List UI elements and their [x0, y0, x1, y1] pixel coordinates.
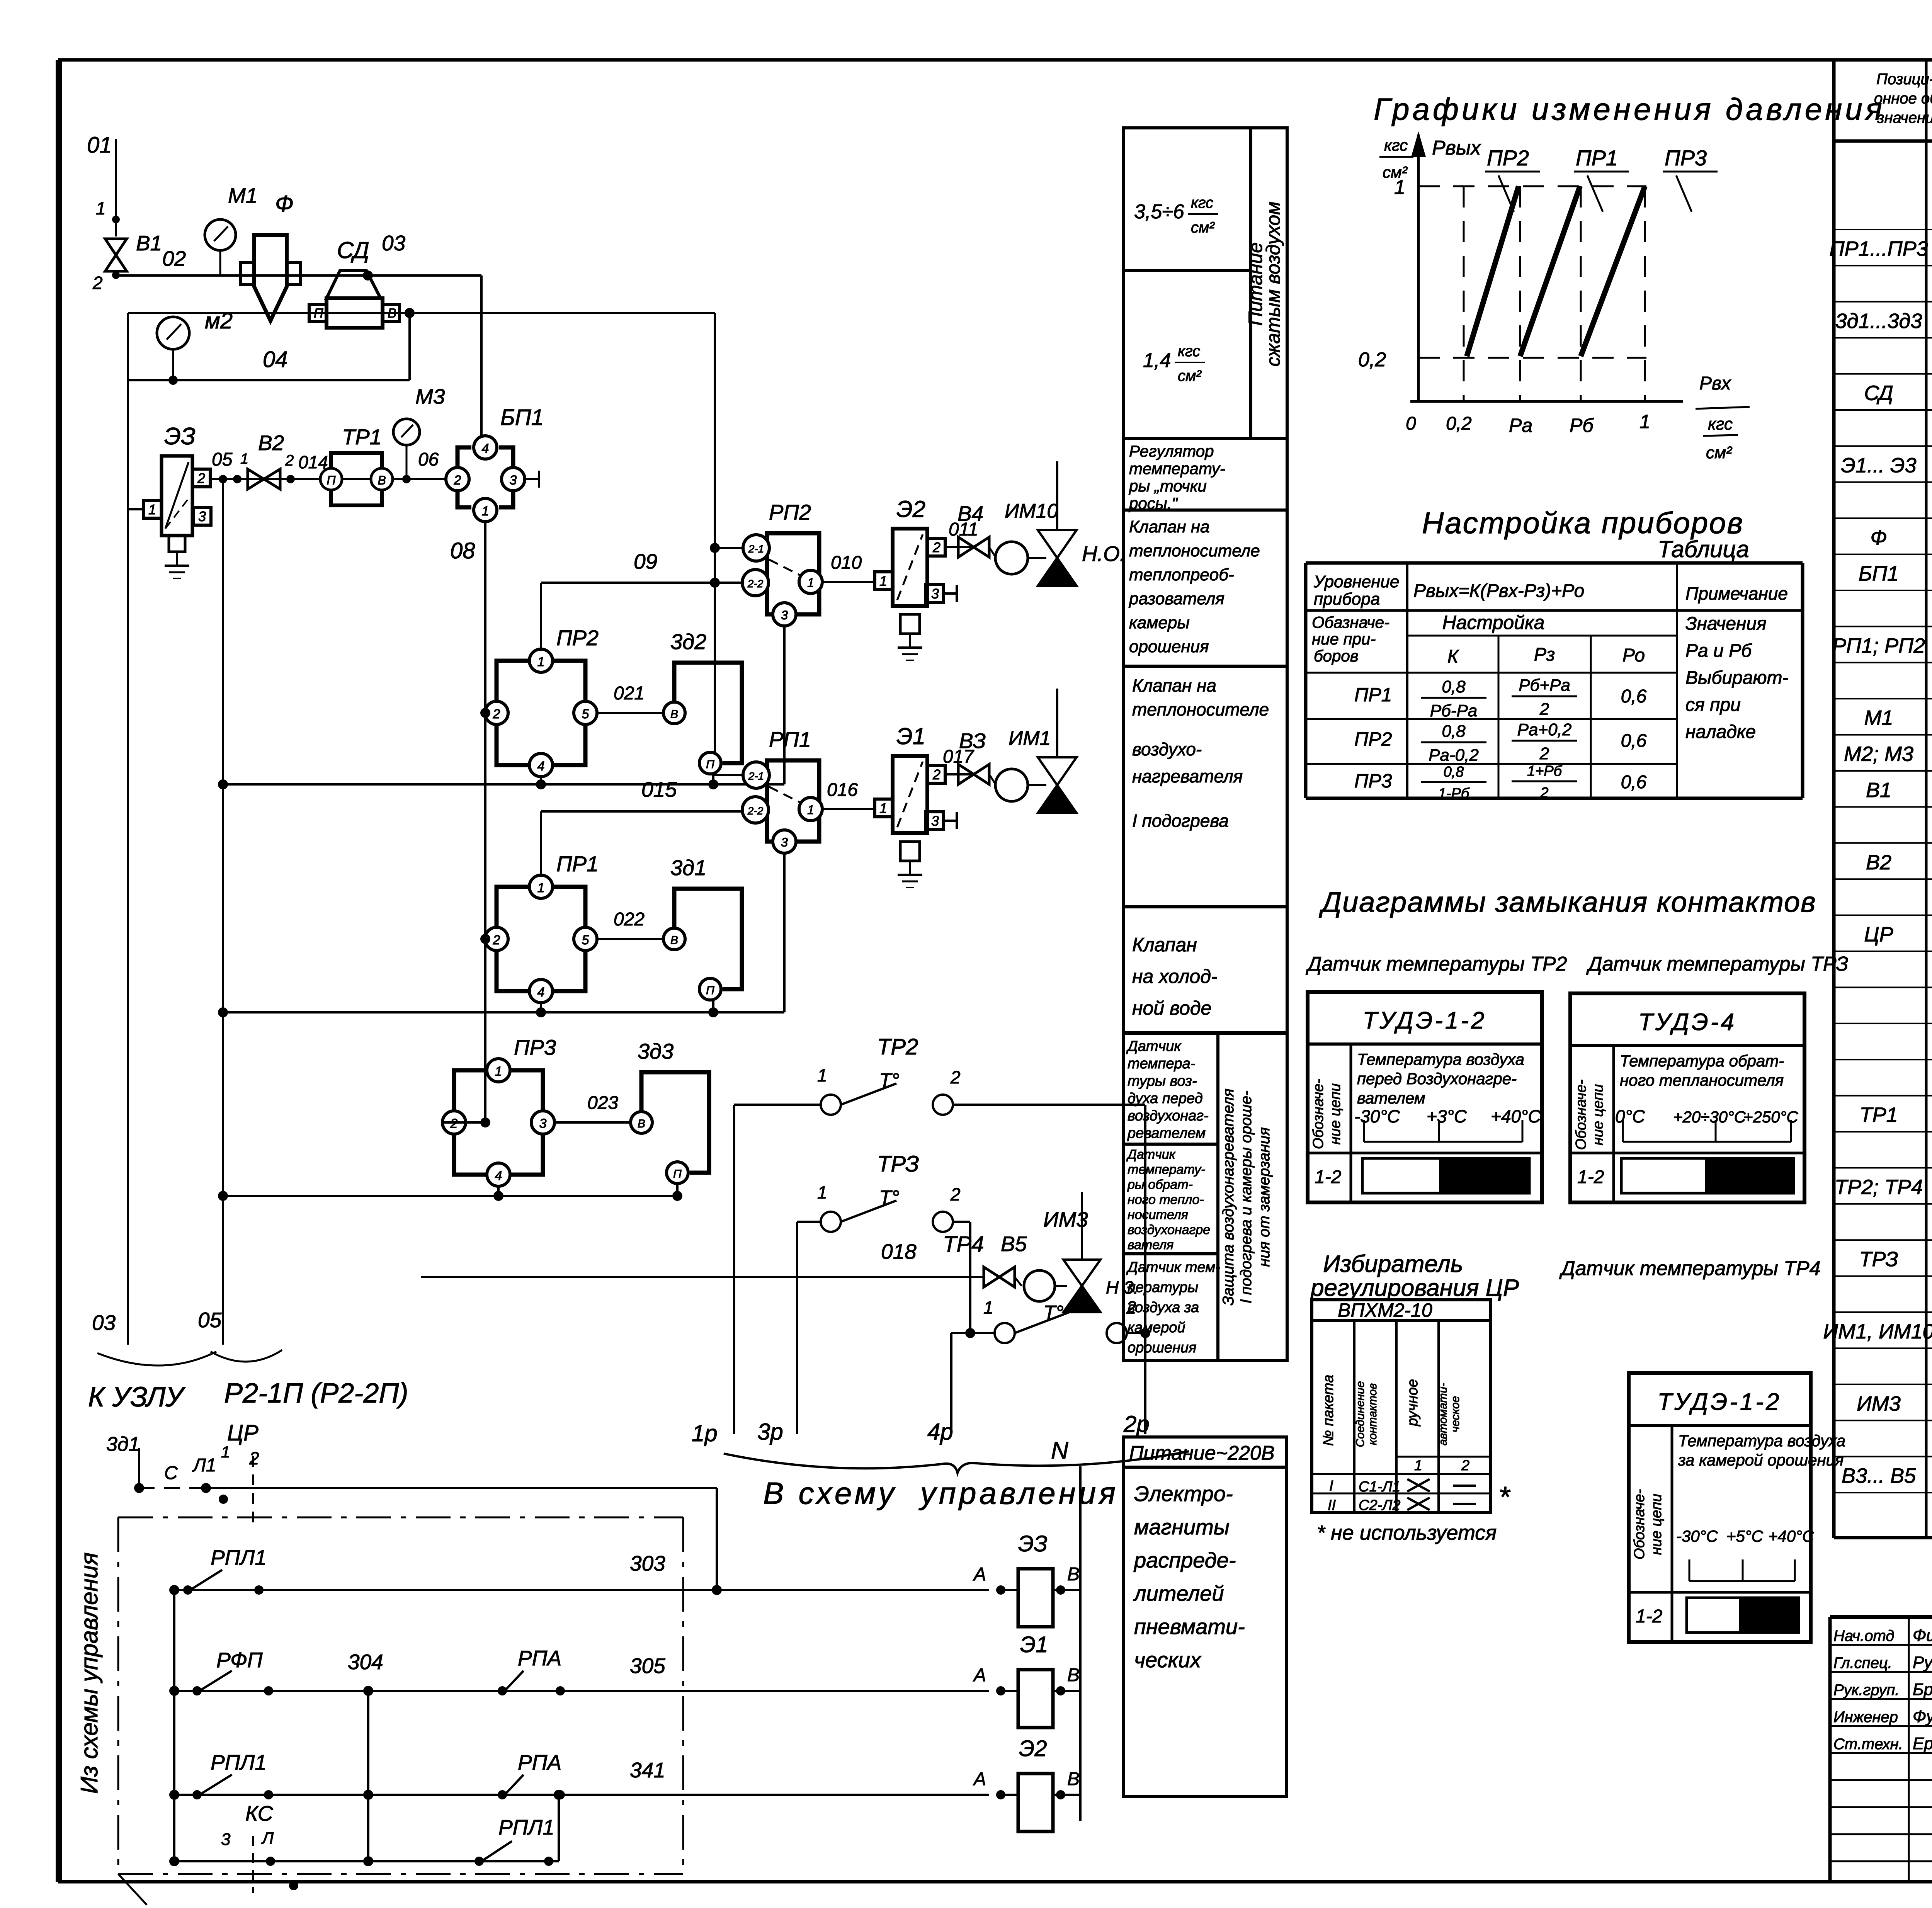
svg-text:0°С: 0°С — [1615, 1106, 1645, 1126]
svg-text:Нач.отд: Нач.отд — [1833, 1627, 1895, 1644]
svg-text:М1: М1 — [228, 184, 257, 207]
svg-text:010: 010 — [831, 553, 862, 573]
svg-text:М2; М3: М2; М3 — [1844, 743, 1913, 766]
svg-text:022: 022 — [614, 909, 645, 930]
svg-text:Обозначе-: Обозначе- — [1573, 1080, 1589, 1150]
svg-text:2р: 2р — [1123, 1411, 1150, 1437]
svg-text:В4: В4 — [957, 502, 983, 525]
svg-text:014: 014 — [298, 452, 328, 472]
svg-text:1: 1 — [1394, 176, 1405, 199]
svg-text:+40°С: +40°С — [1768, 1527, 1814, 1545]
svg-text:1-2: 1-2 — [1636, 1606, 1662, 1627]
svg-text:ПР1: ПР1 — [1354, 684, 1392, 706]
svg-text:Т°: Т° — [879, 1187, 900, 1209]
svg-text:Обазначе-: Обазначе- — [1312, 613, 1389, 631]
svg-text:2: 2 — [932, 767, 940, 782]
svg-text:2: 2 — [454, 473, 461, 488]
svg-text:Рвх: Рвх — [1699, 373, 1731, 394]
svg-text:06: 06 — [418, 449, 439, 470]
svg-text:Э1: Э1 — [896, 723, 925, 749]
svg-text:Рб: Рб — [1570, 415, 1594, 436]
svg-text:В2: В2 — [258, 431, 284, 455]
svg-text:регулирования ЦР: регулирования ЦР — [1310, 1275, 1519, 1301]
svg-text:1: 1 — [807, 576, 814, 590]
svg-text:ЦР: ЦР — [227, 1420, 259, 1445]
svg-text:Ерина: Ерина — [1913, 1734, 1932, 1753]
svg-text:2: 2 — [493, 933, 500, 947]
svg-text:Фингер: Фингер — [1913, 1626, 1932, 1645]
svg-text:В3... В5: В3... В5 — [1842, 1464, 1916, 1488]
svg-text:В2: В2 — [1866, 851, 1891, 874]
svg-text:РФП: РФП — [216, 1648, 263, 1672]
svg-text:нагревателя: нагревателя — [1132, 766, 1243, 786]
svg-text:1-2: 1-2 — [1577, 1167, 1604, 1187]
svg-text:1,4: 1,4 — [1143, 349, 1171, 372]
svg-text:кгс: кгс — [1708, 415, 1733, 434]
svg-text:воздухо-: воздухо- — [1132, 739, 1202, 759]
svg-text:1: 1 — [495, 1064, 502, 1079]
svg-text:А: А — [973, 1564, 986, 1585]
svg-text:ПР3: ПР3 — [514, 1035, 556, 1059]
svg-text:Графики изменения давления: Графики изменения давления — [1374, 92, 1885, 126]
svg-text:1: 1 — [807, 803, 814, 817]
svg-text:016: 016 — [827, 780, 858, 800]
svg-text:см²: см² — [1706, 443, 1732, 462]
svg-text:+40°С: +40°С — [1491, 1106, 1541, 1126]
svg-text:0: 0 — [1406, 413, 1416, 434]
svg-text:2-2: 2-2 — [747, 578, 764, 590]
svg-text:2: 2 — [197, 470, 205, 486]
svg-text:3: 3 — [221, 1830, 231, 1849]
svg-text:+250°С: +250°С — [1743, 1108, 1798, 1126]
svg-text:1: 1 — [148, 502, 156, 517]
svg-text:ТР1: ТР1 — [1859, 1104, 1898, 1127]
svg-text:304: 304 — [348, 1650, 383, 1674]
svg-text:Обозначе-: Обозначе- — [1310, 1079, 1327, 1149]
svg-text:В1: В1 — [136, 231, 162, 255]
svg-text:Ра+0,2: Ра+0,2 — [1517, 720, 1572, 739]
svg-text:ния от замерзания: ния от замерзания — [1256, 1127, 1273, 1267]
svg-text:Температура обрат-: Температура обрат- — [1620, 1052, 1784, 1070]
svg-text:04: 04 — [263, 347, 288, 372]
svg-text:РПЛ1: РПЛ1 — [498, 1815, 554, 1839]
svg-text:2: 2 — [285, 452, 294, 469]
svg-text:4: 4 — [482, 441, 489, 456]
svg-text:Рб+Ра: Рб+Ра — [1519, 676, 1570, 695]
svg-text:за камерой орошения: за камерой орошения — [1678, 1451, 1844, 1469]
svg-text:ПР2: ПР2 — [1487, 146, 1529, 170]
svg-text:темпера-: темпера- — [1128, 1056, 1195, 1072]
svg-text:+20÷30°С: +20÷30°С — [1673, 1108, 1746, 1126]
svg-text:онное обо-: онное обо- — [1874, 90, 1932, 107]
svg-text:023: 023 — [587, 1093, 618, 1113]
svg-text:Э1: Э1 — [1020, 1632, 1048, 1657]
svg-text:Э2: Э2 — [1019, 1736, 1047, 1761]
svg-text:ТР4: ТР4 — [943, 1232, 984, 1257]
svg-text:2: 2 — [1539, 700, 1549, 719]
svg-text:контактов: контактов — [1366, 1383, 1379, 1445]
svg-text:ПР1: ПР1 — [556, 852, 599, 876]
svg-text:021: 021 — [614, 683, 645, 704]
svg-text:вателем: вателем — [1357, 1089, 1425, 1107]
svg-text:1: 1 — [1414, 1457, 1422, 1474]
svg-text:3: 3 — [781, 608, 788, 622]
svg-text:ИМ3: ИМ3 — [1857, 1392, 1901, 1415]
svg-text:4: 4 — [495, 1168, 502, 1183]
svg-text:341: 341 — [630, 1758, 665, 1782]
svg-text:кгс: кгс — [1191, 194, 1213, 211]
svg-text:018: 018 — [881, 1240, 917, 1263]
svg-text:2: 2 — [950, 1184, 961, 1204]
svg-text:Ф: Ф — [1871, 526, 1887, 549]
svg-text:3: 3 — [781, 835, 788, 849]
svg-text:1: 1 — [983, 1298, 993, 1318]
svg-text:Температура воздуха: Температура воздуха — [1678, 1432, 1845, 1450]
svg-text:ревателем: ревателем — [1127, 1125, 1206, 1141]
svg-text:теплоносителе: теплоносителе — [1132, 699, 1269, 719]
svg-text:II: II — [1328, 1497, 1336, 1513]
svg-text:Выбирают-: Выбирают- — [1685, 668, 1788, 688]
svg-text:Регулятор: Регулятор — [1129, 442, 1214, 460]
svg-text:Бронштеин: Бронштеин — [1913, 1680, 1932, 1699]
svg-text:08: 08 — [450, 538, 475, 563]
svg-text:воздухонаг-: воздухонаг- — [1128, 1108, 1209, 1124]
svg-text:1: 1 — [817, 1065, 827, 1085]
svg-text:2: 2 — [1539, 744, 1549, 763]
svg-text:I: I — [1329, 1478, 1333, 1494]
svg-text:А: А — [973, 1769, 986, 1789]
svg-text:В схему управления: В схему управления — [763, 1476, 1119, 1510]
svg-text:ры обрат-: ры обрат- — [1127, 1177, 1193, 1192]
svg-text:ние цепи: ние цепи — [1327, 1083, 1344, 1145]
svg-text:5: 5 — [582, 933, 589, 947]
svg-text:РПЛ1: РПЛ1 — [211, 1750, 267, 1774]
svg-text:ного тепланосителя: ного тепланосителя — [1620, 1071, 1784, 1089]
svg-text:Рубчинский: Рубчинский — [1913, 1653, 1932, 1672]
svg-text:ТР2; ТР4: ТР2; ТР4 — [1835, 1175, 1923, 1199]
svg-text:ческое: ческое — [1449, 1396, 1462, 1432]
svg-text:+3°С: +3°С — [1427, 1106, 1467, 1126]
svg-text:ЦР: ЦР — [1864, 923, 1893, 946]
svg-text:П: П — [314, 306, 323, 321]
svg-text:2: 2 — [1461, 1457, 1469, 1474]
svg-text:Э1... Э3: Э1... Э3 — [1841, 454, 1916, 477]
svg-text:3,5÷6: 3,5÷6 — [1134, 201, 1184, 223]
svg-text:ИМ1: ИМ1 — [1009, 727, 1051, 750]
svg-text:перед Воздухонагре-: перед Воздухонагре- — [1357, 1070, 1517, 1088]
svg-text:Значения: Значения — [1685, 614, 1767, 634]
svg-text:0,2: 0,2 — [1446, 413, 1472, 434]
svg-text:Ф: Ф — [275, 191, 294, 217]
svg-text:ние цепи: ние цепи — [1590, 1084, 1606, 1146]
svg-text:теплопреоб-: теплопреоб- — [1129, 565, 1234, 584]
svg-text:Датчик тем-: Датчик тем- — [1126, 1259, 1220, 1275]
svg-text:03: 03 — [92, 1311, 116, 1335]
svg-text:РП1; РП2: РП1; РП2 — [1832, 634, 1925, 657]
svg-text:Инженер: Инженер — [1833, 1709, 1898, 1726]
svg-text:В1: В1 — [1866, 779, 1891, 802]
svg-text:пневмати-: пневмати- — [1134, 1614, 1245, 1639]
svg-text:1: 1 — [1639, 411, 1650, 432]
svg-text:К: К — [1447, 646, 1459, 667]
svg-text:3д1: 3д1 — [670, 855, 706, 880]
svg-text:015: 015 — [641, 777, 677, 801]
svg-text:3: 3 — [198, 508, 206, 524]
svg-text:2-1: 2-1 — [748, 543, 764, 555]
svg-text:разователя: разователя — [1128, 589, 1225, 608]
svg-text:распреде-: распреде- — [1133, 1548, 1236, 1572]
svg-text:А: А — [973, 1665, 986, 1685]
svg-text:ЭЗ: ЭЗ — [164, 423, 196, 450]
svg-text:В: В — [670, 934, 678, 947]
svg-text:Из схемы управления: Из схемы управления — [76, 1552, 103, 1794]
svg-text:ПР3: ПР3 — [1665, 146, 1707, 170]
svg-text:В: В — [378, 473, 386, 487]
svg-text:0,6: 0,6 — [1621, 731, 1647, 751]
svg-text:ТРЗ: ТРЗ — [1859, 1248, 1898, 1271]
svg-text:Датчик температуры ТРЗ: Датчик температуры ТРЗ — [1586, 953, 1848, 975]
svg-text:1: 1 — [817, 1182, 827, 1202]
svg-text:02: 02 — [162, 247, 186, 270]
svg-text:ние при-: ние при- — [1312, 630, 1376, 648]
svg-text:СД: СД — [337, 237, 369, 263]
svg-text:ПР2: ПР2 — [556, 626, 599, 650]
svg-text:воздуха за: воздуха за — [1128, 1299, 1199, 1316]
svg-text:+5°С: +5°С — [1726, 1527, 1764, 1545]
svg-text:3р: 3р — [757, 1419, 783, 1445]
svg-text:ной воде: ной воде — [1132, 997, 1211, 1019]
svg-text:Ра и Рб: Ра и Рб — [1685, 641, 1752, 661]
svg-text:4: 4 — [537, 985, 545, 1000]
svg-text:Обозначе-: Обозначе- — [1631, 1489, 1648, 1559]
svg-text:1: 1 — [96, 198, 106, 218]
svg-text:РП1: РП1 — [769, 727, 811, 752]
svg-text:1р: 1р — [692, 1420, 718, 1446]
svg-text:на холод-: на холод- — [1132, 966, 1218, 987]
svg-text:орошения: орошения — [1129, 637, 1209, 656]
svg-text:Л: Л — [261, 1829, 274, 1848]
svg-text:Уровнение: Уровнение — [1313, 572, 1399, 591]
svg-text:температу-: температу- — [1128, 1162, 1206, 1177]
svg-text:камерой: камерой — [1128, 1320, 1185, 1336]
svg-text:туры воз-: туры воз- — [1128, 1073, 1197, 1089]
svg-text:воздухонагре: воздухонагре — [1128, 1223, 1210, 1237]
svg-text:3: 3 — [931, 586, 939, 602]
svg-text:орошения: орошения — [1128, 1340, 1196, 1356]
svg-text:01: 01 — [87, 133, 112, 158]
svg-text:Ра-0,2: Ра-0,2 — [1429, 746, 1479, 765]
svg-text:ры „точки: ры „точки — [1128, 477, 1207, 495]
svg-text:В: В — [1067, 1769, 1080, 1789]
svg-text:см²: см² — [1191, 219, 1215, 236]
svg-text:ИМ1, ИМ10: ИМ1, ИМ10 — [1823, 1320, 1932, 1343]
svg-text:Рб-Ра: Рб-Ра — [1430, 701, 1478, 720]
svg-text:ПР1...ПР3: ПР1...ПР3 — [1829, 237, 1928, 260]
svg-text:3: 3 — [510, 473, 517, 488]
svg-text:лителей: лителей — [1133, 1581, 1224, 1605]
svg-text:0,2: 0,2 — [1358, 349, 1386, 371]
svg-text:РПЛ1: РПЛ1 — [211, 1546, 267, 1570]
svg-text:2: 2 — [92, 273, 103, 293]
svg-text:ПР1: ПР1 — [1576, 146, 1618, 170]
svg-text:см²: см² — [1178, 367, 1202, 384]
svg-text:05: 05 — [198, 1308, 222, 1332]
svg-text:ВЗ: ВЗ — [959, 729, 986, 753]
svg-text:сжатым воздухом: сжатым воздухом — [1262, 202, 1284, 367]
svg-text:3д1: 3д1 — [106, 1433, 140, 1456]
svg-text:КС: КС — [245, 1801, 274, 1825]
svg-text:автомати-: автомати- — [1437, 1383, 1449, 1445]
svg-text:303: 303 — [630, 1551, 665, 1575]
svg-text:БП1: БП1 — [500, 405, 544, 430]
svg-text:ТУДЭ-1-2: ТУДЭ-1-2 — [1657, 1389, 1781, 1415]
svg-text:БП1: БП1 — [1859, 562, 1899, 585]
svg-text:М3: М3 — [415, 384, 445, 408]
svg-text:РПА: РПА — [518, 1750, 561, 1774]
svg-text:Э2: Э2 — [896, 496, 925, 522]
svg-text:5: 5 — [582, 707, 589, 721]
svg-text:Ро: Ро — [1622, 645, 1645, 666]
svg-text:температу-: температу- — [1129, 459, 1225, 478]
svg-text:Температура воздуха: Температура воздуха — [1357, 1050, 1524, 1068]
svg-text:камеры: камеры — [1129, 613, 1190, 632]
svg-text:ТР1: ТР1 — [342, 425, 382, 449]
svg-text:2-2: 2-2 — [747, 805, 764, 817]
svg-text:Датчик: Датчик — [1126, 1147, 1176, 1162]
svg-text:1: 1 — [221, 1443, 230, 1461]
svg-text:СД: СД — [1864, 382, 1893, 405]
svg-text:ся при: ся при — [1685, 695, 1741, 715]
svg-text:ние цепи: ние цепи — [1648, 1494, 1665, 1555]
svg-text:Т°: Т° — [879, 1070, 900, 1092]
svg-text:кгс: кгс — [1384, 136, 1408, 154]
svg-text:№ пакета: № пакета — [1320, 1375, 1337, 1446]
svg-text:Датчик температуры ТР2: Датчик температуры ТР2 — [1306, 953, 1567, 975]
svg-text:03: 03 — [382, 231, 406, 255]
svg-text:Позици-: Позици- — [1876, 71, 1932, 88]
svg-text:05: 05 — [212, 449, 233, 470]
svg-text:Питание~220В: Питание~220В — [1129, 1442, 1275, 1464]
svg-text:В: В — [388, 306, 396, 321]
svg-text:вателя: вателя — [1128, 1238, 1173, 1252]
svg-text:1-2: 1-2 — [1315, 1167, 1341, 1187]
svg-text:1+Рб: 1+Рб — [1527, 763, 1563, 779]
svg-text:ИМ3: ИМ3 — [1043, 1207, 1088, 1231]
svg-text:Т°: Т° — [1043, 1302, 1064, 1324]
svg-text:Датчик температуры ТР4: Датчик температуры ТР4 — [1559, 1257, 1821, 1280]
svg-text:П: П — [673, 1168, 682, 1180]
svg-text:3: 3 — [539, 1116, 547, 1131]
svg-text:П: П — [327, 473, 336, 487]
svg-text:ного тепло-: ного тепло- — [1128, 1192, 1204, 1207]
svg-text:кгс: кгс — [1178, 343, 1200, 360]
svg-text:Настройка: Настройка — [1442, 612, 1545, 633]
svg-text:Защита воздухонагревателя: Защита воздухонагревателя — [1220, 1088, 1237, 1306]
svg-text:Рз: Рз — [1534, 645, 1555, 665]
svg-text:2: 2 — [493, 707, 500, 721]
svg-text:Клапан: Клапан — [1132, 934, 1197, 956]
svg-text:3д3: 3д3 — [638, 1039, 673, 1063]
svg-text:К УЗЛУ: К УЗЛУ — [88, 1382, 185, 1413]
svg-text:0,8: 0,8 — [1442, 722, 1466, 741]
svg-text:*: * — [1498, 1481, 1511, 1513]
svg-text:носителя: носителя — [1128, 1207, 1188, 1222]
svg-text:ТР2: ТР2 — [877, 1034, 918, 1059]
svg-text:ПР2: ПР2 — [1354, 728, 1392, 750]
svg-text:1: 1 — [537, 881, 545, 895]
svg-text:09: 09 — [634, 549, 657, 573]
svg-text:Фукс: Фукс — [1913, 1707, 1932, 1726]
svg-text:прибора: прибора — [1314, 590, 1380, 609]
svg-text:В: В — [1067, 1564, 1080, 1585]
svg-text:Клапан на: Клапан на — [1129, 517, 1210, 536]
svg-text:Ра: Ра — [1509, 415, 1532, 436]
svg-text:Рук.груп.: Рук.груп. — [1833, 1682, 1899, 1699]
svg-text:3: 3 — [931, 813, 939, 829]
svg-text:П: П — [706, 984, 714, 997]
svg-text:3д2: 3д2 — [670, 629, 706, 654]
svg-text:В: В — [670, 708, 678, 721]
svg-text:Клапан на: Клапан на — [1132, 675, 1216, 696]
svg-text:2: 2 — [1540, 785, 1548, 801]
svg-text:Примечание: Примечание — [1685, 583, 1788, 604]
svg-text:I подогрева: I подогрева — [1132, 811, 1229, 831]
svg-text:С2-Л2: С2-Л2 — [1359, 1497, 1400, 1513]
svg-text:1: 1 — [879, 573, 887, 589]
svg-text:пературы: пературы — [1128, 1279, 1198, 1296]
svg-text:РП2: РП2 — [769, 500, 811, 524]
svg-text:В: В — [638, 1117, 645, 1130]
svg-text:ИМ10: ИМ10 — [1005, 500, 1058, 522]
svg-text:1-Рб: 1-Рб — [1438, 786, 1470, 802]
svg-text:ТУДЭ-1-2: ТУДЭ-1-2 — [1362, 1007, 1486, 1034]
svg-text:Датчик: Датчик — [1126, 1038, 1182, 1054]
svg-text:ТРЗ: ТРЗ — [877, 1151, 919, 1177]
svg-text:Рвых=К(Рвх-Рз)+Ро: Рвых=К(Рвх-Рз)+Ро — [1413, 581, 1584, 601]
svg-text:4: 4 — [537, 759, 545, 774]
svg-text:ВПХМ2-10: ВПХМ2-10 — [1338, 1299, 1432, 1321]
svg-text:1: 1 — [537, 655, 545, 669]
svg-text:0,6: 0,6 — [1621, 772, 1647, 792]
svg-text:М1: М1 — [1864, 706, 1893, 730]
svg-text:ТУДЭ-4: ТУДЭ-4 — [1638, 1009, 1736, 1036]
svg-text:П: П — [706, 758, 714, 771]
svg-text:0,6: 0,6 — [1621, 686, 1647, 707]
svg-text:* не используется: * не используется — [1317, 1521, 1497, 1544]
svg-text:значени: значени — [1877, 109, 1932, 126]
svg-text:С: С — [164, 1463, 178, 1483]
svg-text:наладке: наладке — [1685, 722, 1756, 742]
svg-text:-30°С: -30°С — [1676, 1527, 1718, 1545]
svg-text:1: 1 — [879, 800, 887, 816]
svg-text:3д1...3д3: 3д1...3д3 — [1835, 309, 1922, 333]
svg-text:I подогрева и камеры ороше-: I подогрева и камеры ороше- — [1238, 1091, 1255, 1304]
svg-text:4р: 4р — [927, 1419, 953, 1445]
svg-text:В: В — [1067, 1665, 1080, 1685]
svg-text:м2: м2 — [205, 308, 233, 333]
svg-text:Избиратель: Избиратель — [1323, 1251, 1463, 1277]
svg-text:0,8: 0,8 — [1444, 764, 1464, 780]
svg-text:ручное: ручное — [1405, 1379, 1421, 1427]
svg-text:магниты: магниты — [1134, 1515, 1230, 1539]
svg-text:Н.О.: Н.О. — [1082, 542, 1126, 566]
svg-text:ческих: ческих — [1134, 1648, 1202, 1672]
svg-text:теплоносителе: теплоносителе — [1129, 541, 1260, 560]
svg-text:Рвых: Рвых — [1432, 137, 1481, 159]
svg-text:Р2-1П (Р2-2П): Р2-1П (Р2-2П) — [224, 1378, 408, 1409]
svg-text:В5: В5 — [1001, 1232, 1027, 1256]
svg-text:боров: боров — [1314, 647, 1359, 665]
